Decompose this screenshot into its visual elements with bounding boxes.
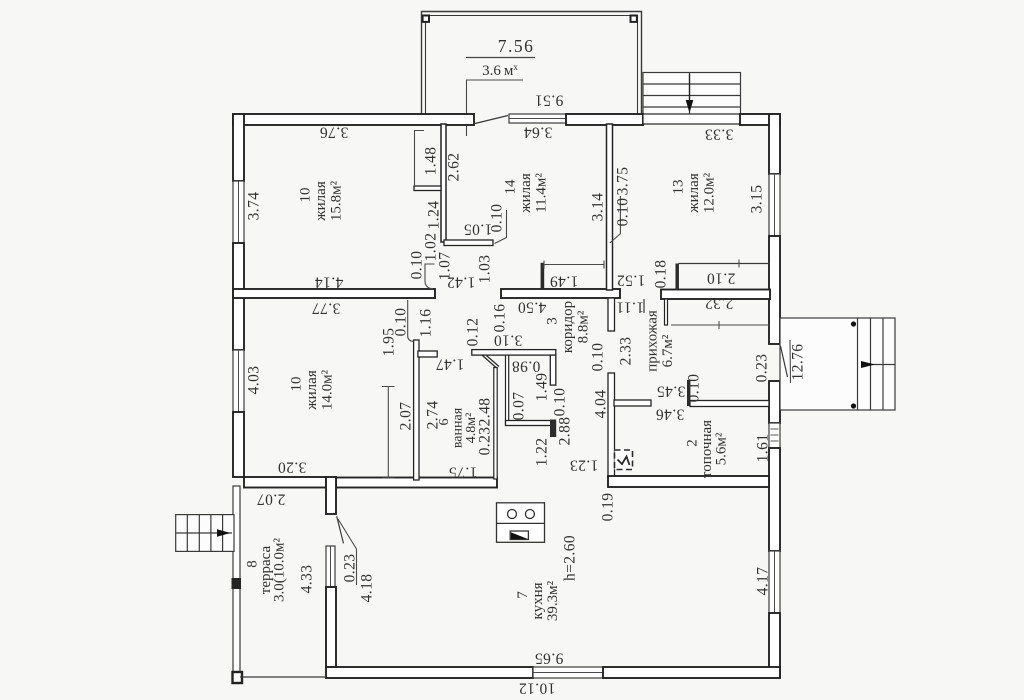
window room 10 upper — [233, 181, 244, 243]
svg-text:3.10: 3.10 — [494, 332, 523, 349]
svg-text:1.16: 1.16 — [418, 309, 435, 338]
leader 12.76 — [789, 340, 792, 383]
stairs right arrow — [861, 361, 875, 368]
dim bracket 1.48 — [415, 131, 425, 187]
door pillar boiler room — [687, 380, 690, 406]
terrace post corner — [233, 672, 243, 683]
svg-text:12.0м²: 12.0м² — [702, 172, 718, 213]
svg-text:3.45: 3.45 — [657, 383, 686, 400]
leader 0.16 vestibule — [495, 210, 507, 244]
corridor-kitchen wall — [506, 421, 553, 426]
svg-text:0.12: 0.12 — [465, 318, 482, 347]
svg-text:13: 13 — [671, 180, 687, 195]
svg-text:7.56: 7.56 — [498, 36, 535, 56]
porch outline — [422, 12, 642, 115]
svg-text:15.8м²: 15.8м² — [329, 180, 345, 221]
top wall west segment — [233, 114, 474, 125]
svg-text:5.6м²: 5.6м² — [714, 432, 730, 465]
wall vestibule south (4.50) — [501, 289, 620, 298]
window top (vestibule) — [509, 114, 566, 123]
window terrace-kitchen — [326, 546, 335, 587]
svg-text:3.14: 3.14 — [590, 193, 607, 222]
kitchen north wall east (boiler south) — [608, 476, 769, 487]
svg-text:3.33: 3.33 — [705, 126, 734, 143]
svg-text:коридор: коридор — [560, 301, 576, 353]
wall room10 south (4.14/3.77) — [233, 289, 435, 298]
svg-text:4.03: 4.03 — [246, 366, 263, 395]
svg-text:2.33: 2.33 — [618, 337, 635, 366]
closet stub room10 — [414, 186, 441, 191]
bottom wall west segment — [326, 667, 533, 678]
porch post left — [423, 16, 429, 22]
svg-text:0.07: 0.07 — [511, 392, 528, 421]
corridor wall chamfer — [482, 355, 499, 368]
svg-text:14.0м²: 14.0м² — [320, 369, 336, 410]
room label 10 zhilaya 15.8 — [298, 180, 345, 221]
svg-text:9.51: 9.51 — [535, 92, 564, 109]
top wall center segment — [566, 114, 643, 125]
boiler symbol — [615, 450, 633, 470]
svg-text:9.65: 9.65 — [535, 650, 564, 667]
bathroom north wall piece — [418, 351, 437, 357]
svg-text:2.74: 2.74 — [425, 401, 442, 430]
room label 14 zhilaya 11.4 — [503, 173, 550, 214]
svg-text:3.74: 3.74 — [246, 192, 263, 221]
left wall segment 1 — [233, 114, 244, 181]
stairs top-right — [643, 73, 741, 119]
closet line room13 — [679, 263, 770, 265]
stairs right dots — [851, 321, 856, 326]
terrace west wall — [233, 486, 240, 677]
svg-text:2.07: 2.07 — [398, 402, 415, 431]
wall room13 south (2.32) — [661, 290, 770, 300]
terrace south edge — [240, 676, 326, 678]
niche wall — [506, 355, 509, 424]
svg-text:3.75: 3.75 — [615, 167, 632, 196]
right wall segment 1 — [769, 114, 780, 174]
bathroom east wall — [494, 368, 497, 480]
svg-text:0.23: 0.23 — [342, 554, 359, 583]
kitchen west wall upper — [326, 477, 336, 514]
svg-text:1.11: 1.11 — [616, 299, 644, 316]
svg-text:3.77: 3.77 — [312, 300, 341, 317]
window room 13 — [769, 174, 780, 236]
wall rooms 14/13 divider — [607, 124, 613, 290]
svg-text:жилая: жилая — [686, 173, 702, 214]
stairs left (terrace) — [176, 515, 234, 552]
svg-text:2.88: 2.88 — [557, 417, 574, 446]
svg-text:4.18: 4.18 — [359, 574, 376, 603]
svg-text:кухня: кухня — [530, 582, 546, 619]
room label prihozhaya 6.7 — [644, 310, 676, 372]
hallway west wall lower — [608, 373, 615, 477]
svg-text:11.4м²: 11.4м² — [534, 173, 550, 213]
porch landing line — [467, 80, 524, 136]
svg-text:12.76: 12.76 — [790, 344, 807, 381]
svg-text:жилая: жилая — [313, 181, 329, 222]
svg-text:1.47: 1.47 — [436, 356, 465, 373]
svg-text:1.24: 1.24 — [426, 201, 443, 230]
svg-text:10: 10 — [298, 188, 314, 203]
room label 10 zhilaya 14.0 — [289, 369, 336, 410]
kitchen west wall lower — [326, 587, 336, 667]
leader 0.23 terrace — [338, 519, 357, 585]
hallway west wall upper — [608, 298, 615, 331]
svg-text:2.48: 2.48 — [477, 398, 494, 427]
window kitchen east — [769, 551, 780, 613]
wall rooms 10/14 divider — [441, 124, 446, 242]
svg-text:0.10: 0.10 — [552, 388, 569, 417]
hall stub wall — [665, 299, 668, 325]
svg-text:3.15: 3.15 — [749, 185, 766, 214]
svg-text:4.33: 4.33 — [299, 565, 316, 594]
vestibule door jamb bar — [541, 263, 545, 289]
svg-text:0.23: 0.23 — [754, 354, 771, 383]
bottom wall east segment — [603, 667, 780, 678]
room label 7 kuhnya 39.3 — [515, 580, 561, 621]
svg-text:0.10: 0.10 — [489, 204, 506, 233]
left wall segment 2 — [233, 243, 244, 350]
svg-text:7: 7 — [515, 591, 531, 599]
svg-text:1.61: 1.61 — [755, 434, 772, 463]
svg-text:0.18: 0.18 — [653, 260, 670, 289]
svg-text:39.3м²: 39.3м² — [545, 580, 561, 621]
svg-text:3.76: 3.76 — [320, 124, 349, 141]
svg-text:8.8м²: 8.8м² — [576, 310, 592, 343]
exterior door leaf right — [781, 346, 788, 377]
svg-text:3.46: 3.46 — [656, 406, 685, 423]
svg-text:0.10: 0.10 — [590, 343, 607, 372]
svg-text:1.52: 1.52 — [617, 272, 646, 289]
top wall east segment — [740, 114, 780, 125]
terrace post middle — [232, 578, 242, 589]
svg-text:0.16: 0.16 — [492, 304, 509, 333]
svg-text:3.6 мх: 3.6 мх — [482, 62, 518, 79]
svg-text:3: 3 — [545, 317, 561, 325]
wall room14 south — [444, 240, 493, 246]
dim line under 7.56 — [466, 57, 535, 59]
stairs top-right down arrow — [689, 74, 691, 100]
room label 8 terrasa — [245, 538, 288, 602]
left wall segment 3 — [233, 412, 244, 477]
room label 6 vannaya 4.8 — [437, 407, 479, 448]
window kitchen south — [533, 667, 603, 678]
stairs left arrow — [217, 529, 231, 537]
svg-text:3.64: 3.64 — [524, 124, 553, 141]
closet pillar room13 — [676, 264, 679, 290]
front door leaf — [475, 116, 508, 124]
room label 13 zhilaya 12.0 — [671, 172, 718, 213]
svg-text:4.04: 4.04 — [593, 390, 610, 419]
leader 0.10 vestibule left — [425, 264, 435, 289]
svg-text:0.98: 0.98 — [512, 358, 541, 375]
room label 2 topochnaya 5.6 — [685, 420, 730, 478]
right wall segment 4 — [769, 448, 780, 551]
svg-text:1.22: 1.22 — [534, 438, 551, 467]
window room 10 lower — [233, 350, 244, 412]
right wall segment 3 — [769, 381, 780, 423]
hallway closet line — [671, 324, 769, 326]
svg-text:0.10: 0.10 — [686, 374, 703, 403]
terrace north wall — [244, 477, 326, 488]
terrace door leaf — [337, 516, 344, 543]
room label 3 koridor 8.8 — [545, 301, 592, 353]
svg-text:2.10: 2.10 — [707, 270, 736, 287]
boiler room north wall — [690, 401, 769, 407]
svg-text:1.23: 1.23 — [570, 457, 599, 474]
svg-text:1.95: 1.95 — [381, 328, 398, 357]
svg-text:прихожая: прихожая — [644, 310, 660, 372]
svg-text:1.49: 1.49 — [534, 373, 551, 402]
svg-text:10.12: 10.12 — [519, 680, 556, 697]
dim line 1.49 vestibule — [544, 261, 604, 269]
right wall segment 5 — [769, 613, 780, 676]
small jamb line — [643, 299, 645, 313]
hallway south wall west piece — [614, 400, 651, 406]
kitchen north wall west — [336, 478, 497, 488]
kitchen entry pillar — [550, 420, 556, 438]
svg-text:3.20: 3.20 — [278, 459, 307, 476]
svg-text:4.17: 4.17 — [755, 567, 772, 596]
leader 0.10 bathroom door — [408, 300, 414, 342]
svg-text:0.19: 0.19 — [600, 493, 617, 522]
dim line 2.07 room10 — [382, 387, 395, 479]
kitchen stove symbol — [497, 503, 545, 543]
svg-text:2.07: 2.07 — [257, 491, 286, 508]
right wall segment 2 — [769, 236, 780, 344]
bathroom west wall — [414, 340, 419, 480]
svg-text:6.7м²: 6.7м² — [660, 334, 676, 367]
svg-text:1.48: 1.48 — [423, 147, 440, 176]
svg-text:1.07: 1.07 — [437, 252, 454, 281]
svg-text:4.50: 4.50 — [518, 299, 547, 316]
porch post right — [631, 16, 637, 22]
svg-text:1.03: 1.03 — [477, 255, 494, 284]
top wall under stairs — [643, 114, 741, 124]
svg-text:4.14: 4.14 — [315, 274, 344, 291]
svg-text:жилая: жилая — [304, 370, 320, 411]
svg-text:2.32: 2.32 — [705, 295, 734, 312]
svg-text:14: 14 — [503, 179, 519, 195]
svg-text:0.23: 0.23 — [477, 427, 494, 456]
stairs right side — [780, 318, 895, 410]
corridor south wall — [472, 350, 556, 356]
svg-text:1.75: 1.75 — [449, 464, 478, 481]
corridor wall leg — [550, 355, 556, 385]
svg-text:1.49: 1.49 — [550, 273, 579, 290]
leader 0.10 room14 wall — [610, 196, 621, 243]
vent window boiler room — [769, 423, 780, 448]
svg-text:3.0(10.0м²: 3.0(10.0м² — [272, 538, 288, 602]
svg-text:0.10: 0.10 — [615, 198, 632, 227]
svg-text:жилая: жилая — [518, 173, 534, 214]
svg-text:h=2.60: h=2.60 — [562, 535, 579, 581]
svg-text:2.62: 2.62 — [446, 153, 463, 182]
svg-text:10: 10 — [289, 377, 305, 392]
